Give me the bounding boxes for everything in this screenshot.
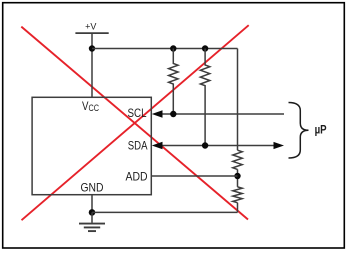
- wire R4 to bottom rail: [237, 203, 239, 213]
- brace grouping bus lines to uP: [289, 103, 309, 159]
- node SDA to R2: [202, 142, 208, 148]
- red X overlay line 1: [21, 27, 248, 220]
- resistor R4 lower divider on ADD: [233, 187, 242, 203]
- node ADD divider junction: [234, 173, 240, 179]
- wire R3 to ADD node: [237, 169, 239, 187]
- IC U1 body: [32, 97, 151, 194]
- arrowhead SDA to uP: [274, 142, 285, 149]
- node rail to R1: [170, 45, 176, 51]
- wire bottom return rail: [92, 211, 238, 213]
- power +V symbol: [75, 21, 108, 33]
- resistor R1 pull-up on SCL: [169, 49, 178, 115]
- wire SCL line: [158, 113, 284, 115]
- resistor R2 pull-up on SDA: [200, 49, 209, 146]
- red X overlay line 2: [22, 25, 249, 220]
- node SCL to R1: [170, 111, 176, 117]
- node supply junction: [89, 45, 95, 51]
- resistor R3 upper divider on ADD: [233, 150, 242, 169]
- svg-text:ADD: ADD: [126, 170, 148, 184]
- wire ADD line: [151, 175, 237, 177]
- arrowhead into SCL pin: [152, 110, 163, 117]
- arrowhead into SDA pin: [152, 142, 163, 149]
- svg-text:GND: GND: [81, 181, 104, 195]
- wire GND pin down: [91, 195, 93, 213]
- node ground junction: [89, 209, 96, 216]
- svg-text:µP: µP: [315, 124, 327, 136]
- node rail to R2: [202, 45, 208, 51]
- svg-text:SCL: SCL: [128, 106, 147, 120]
- svg-text:+V: +V: [85, 21, 96, 31]
- ground symbol: [79, 212, 105, 231]
- wire right branch from rail: [237, 49, 239, 151]
- wire top supply rail: [92, 48, 238, 50]
- wire SDA line: [158, 145, 276, 147]
- wire +V bar to VCC pin: [91, 33, 93, 97]
- svg-text:SDA: SDA: [128, 139, 148, 153]
